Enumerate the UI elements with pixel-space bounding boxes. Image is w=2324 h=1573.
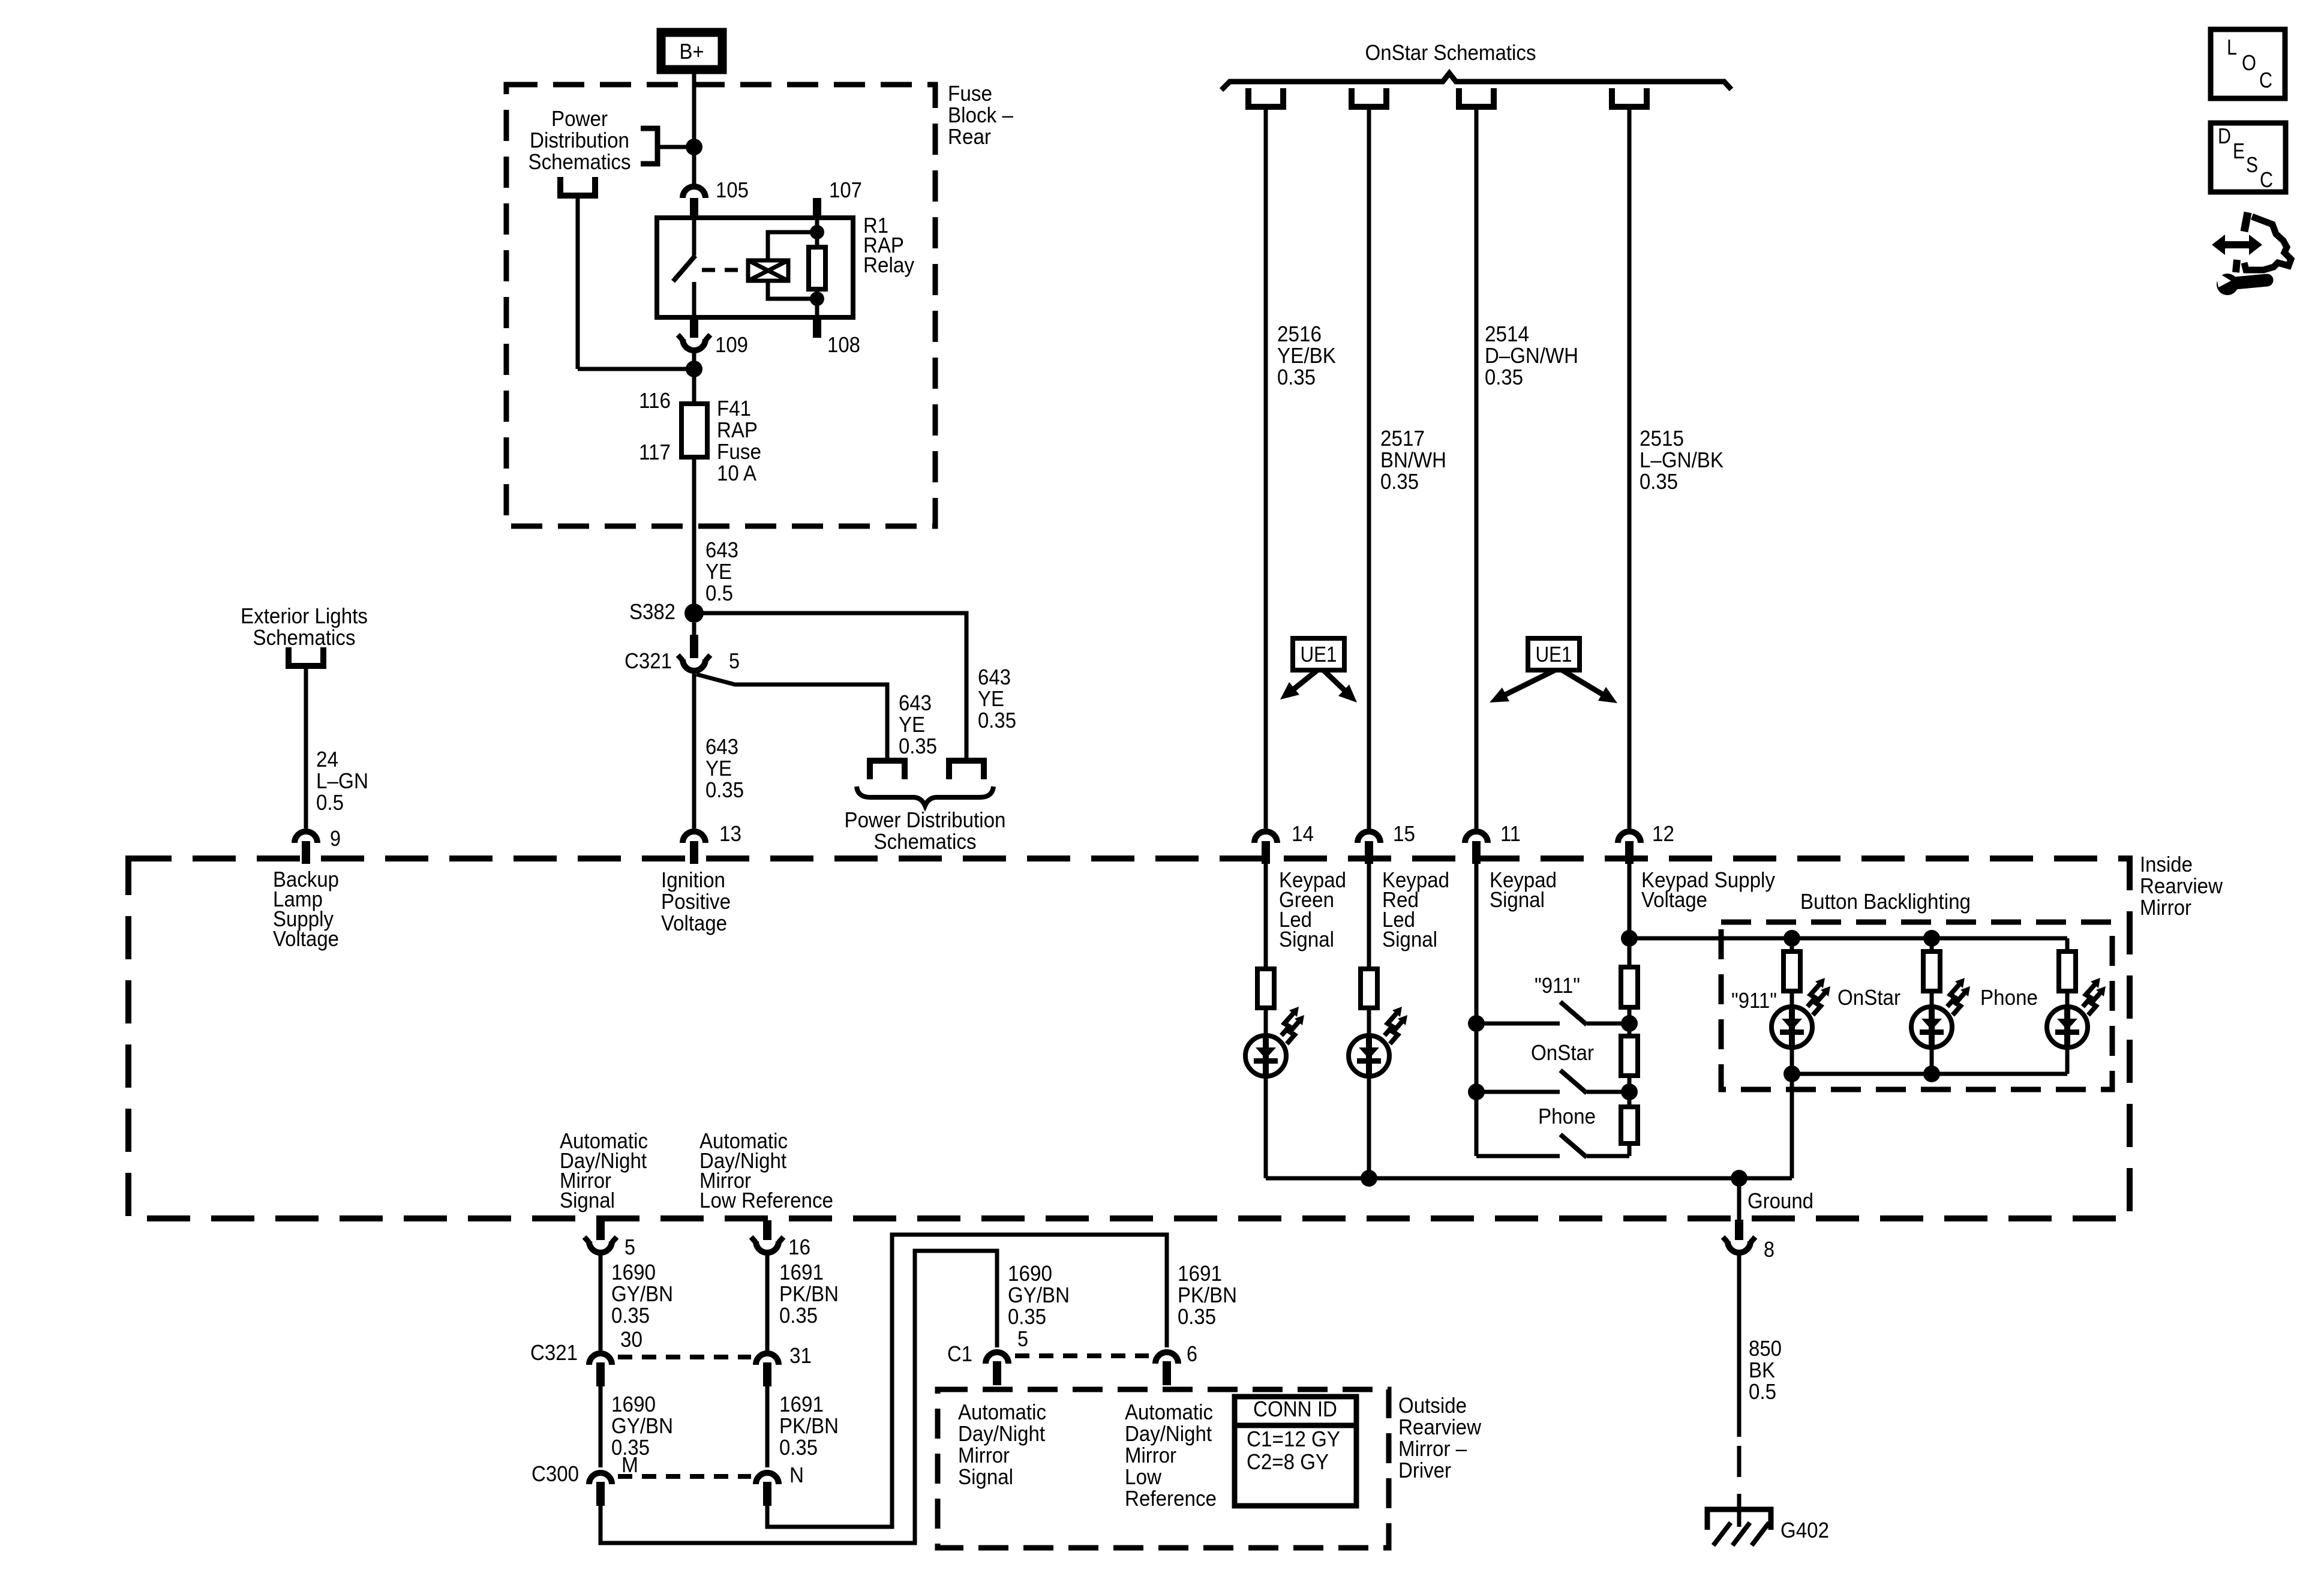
svg-text:Schematics: Schematics: [253, 625, 356, 650]
reference symbol exterior lights schematics: [289, 647, 323, 666]
svg-text:117: 117: [639, 440, 671, 464]
wire backlight bus to keypad ground bus: [1790, 1074, 1794, 1178]
svg-text:5: 5: [729, 649, 740, 673]
wire red LED to ground bus: [1367, 1076, 1371, 1178]
relay pin 108: [813, 317, 821, 338]
relay switch contact from pin 105: [692, 218, 696, 256]
OnStar wire 3 top reference terminal: [1459, 88, 1494, 107]
svg-text:116: 116: [639, 388, 671, 413]
wire exterior lights to connector 9 (24 L-GN 0.5): [304, 666, 308, 828]
wire 2514 D-GN/WH 0.35 vertical: [1475, 107, 1479, 828]
svg-text:M: M: [621, 1452, 638, 1477]
C300 terminal M: [589, 1473, 612, 1484]
svg-text:11: 11: [1500, 821, 1521, 846]
svg-text:643: 643: [899, 691, 932, 715]
keypad green LED resistor: [1257, 969, 1274, 1008]
keypad red LED resistor: [1361, 969, 1377, 1008]
reference bracket to Power Distribution Schematics: [641, 128, 657, 164]
keypad red LED branch wire: [1367, 864, 1371, 969]
svg-text:Signal: Signal: [1382, 927, 1437, 951]
svg-text:L–GN/BK: L–GN/BK: [1640, 448, 1724, 472]
svg-text:Relay: Relay: [863, 253, 914, 277]
fuse block rear dashed outline: [506, 85, 935, 526]
wire 1690 GY/BN upper segment: [599, 1253, 603, 1350]
backlight 911 branch junction: [1783, 930, 1800, 947]
svg-text:12: 12: [1652, 821, 1674, 846]
switch 911 fixed side: [1476, 1022, 1560, 1026]
svg-text:24: 24: [316, 747, 338, 772]
battery positive B+ terminal: [661, 32, 722, 70]
C321 terminal 30: [589, 1353, 612, 1365]
ground wire 850 BK 0.5: [1737, 1253, 1742, 1437]
svg-text:0.35: 0.35: [1008, 1304, 1046, 1329]
big box bottom: connector 16 automatic mirror low reference: [763, 1220, 771, 1240]
svg-text:108: 108: [827, 332, 860, 357]
svg-text:Automatic: Automatic: [958, 1400, 1046, 1424]
backlight OnStar LED: [1911, 1007, 1952, 1047]
svg-text:14: 14: [1292, 821, 1314, 846]
svg-text:Voltage: Voltage: [1641, 887, 1707, 912]
svg-text:107: 107: [829, 178, 862, 202]
junction keypad signal / 911: [1468, 1015, 1485, 1032]
svg-text:0.5: 0.5: [1749, 1379, 1776, 1404]
svg-text:Exterior Lights: Exterior Lights: [241, 604, 368, 628]
junction coil/resistor top: [810, 225, 824, 239]
big box bottom: connector 5 automatic mirror signal: [596, 1220, 605, 1240]
switch 911 to supply junction: [1587, 1022, 1629, 1026]
LOC legend box: [2211, 29, 2285, 98]
svg-text:L–GN: L–GN: [316, 769, 368, 793]
svg-text:6: 6: [1187, 1341, 1197, 1366]
svg-text:L: L: [2227, 35, 2237, 59]
svg-text:OnStar: OnStar: [1531, 1040, 1594, 1065]
svg-text:0.35: 0.35: [1485, 365, 1523, 389]
relay actuator dashed link: [702, 268, 746, 272]
svg-text:OnStar: OnStar: [1837, 985, 1900, 1010]
svg-text:0.35: 0.35: [779, 1435, 818, 1460]
svg-text:0.5: 0.5: [705, 581, 733, 605]
relay coil symbol (box with X): [748, 260, 788, 281]
svg-text:5: 5: [624, 1235, 635, 1259]
keypad signal wire: [1475, 864, 1479, 1156]
keypad green LED branch wire: [1264, 864, 1268, 969]
keypad supply resistor 3: [1621, 1107, 1638, 1143]
wire backlight OnStar LED to bus: [1930, 1047, 1934, 1074]
svg-text:UE1: UE1: [1536, 642, 1572, 667]
svg-text:Mirror: Mirror: [1125, 1443, 1176, 1467]
svg-text:Distribution: Distribution: [530, 128, 629, 152]
C321 dashed connector link: [618, 1355, 751, 1359]
outside rearview mirror driver dashed outline: [938, 1389, 1389, 1548]
svg-text:Signal: Signal: [1279, 927, 1334, 951]
switch OnStar fixed side: [1476, 1090, 1560, 1094]
svg-text:OnStar Schematics: OnStar Schematics: [1365, 40, 1536, 65]
backlight 911 resistor: [1790, 938, 1794, 951]
keypad red LED: [1349, 1035, 1389, 1076]
svg-text:9: 9: [330, 826, 341, 851]
wire B+ into fuse block: [692, 70, 696, 184]
light arrows green LED: [1281, 1013, 1293, 1035]
svg-text:30: 30: [620, 1327, 642, 1352]
wire power distribution branch horizontal: [578, 367, 694, 371]
svg-text:10 A: 10 A: [717, 461, 756, 485]
svg-text:0.35: 0.35: [779, 1303, 818, 1328]
backlight 911 LED: [1771, 1007, 1812, 1047]
C300 dashed connector link: [618, 1474, 751, 1479]
navigation icon panel outline: [2244, 212, 2248, 232]
wire C321 pin5 branch to power distribution reference: [696, 674, 887, 761]
svg-text:C: C: [2260, 167, 2273, 192]
svg-text:PK/BN: PK/BN: [1178, 1283, 1237, 1307]
UE1 arrow to wire 2515: [1562, 670, 1607, 697]
svg-text:2517: 2517: [1380, 426, 1425, 451]
CONN ID table: [1235, 1397, 1356, 1506]
svg-text:0.35: 0.35: [1277, 365, 1316, 389]
svg-text:Phone: Phone: [1980, 985, 2038, 1010]
relay coil top lead: [768, 232, 817, 260]
svg-text:GY/BN: GY/BN: [611, 1413, 673, 1438]
connector terminal 11 inside rearview mirror: [1465, 831, 1488, 843]
backlight OnStar resistor: [1930, 938, 1934, 951]
svg-text:2514: 2514: [1485, 322, 1529, 346]
light arrows backlight 911: [1807, 984, 1819, 1007]
svg-text:Day/Night: Day/Night: [1125, 1421, 1212, 1446]
svg-text:GY/BN: GY/BN: [611, 1281, 673, 1306]
svg-text:Phone: Phone: [1538, 1104, 1596, 1128]
svg-text:D: D: [2218, 124, 2231, 148]
svg-text:C321: C321: [530, 1340, 578, 1365]
relay R1 box outline: [657, 218, 853, 317]
svg-text:5: 5: [1017, 1326, 1028, 1351]
wire green LED to ground bus: [1264, 1076, 1268, 1178]
svg-text:O: O: [2242, 50, 2256, 75]
keypad supply resistor 1: [1621, 967, 1638, 1007]
wire 1691 PK/BN lower segment: [765, 1386, 770, 1467]
svg-text:C321: C321: [624, 649, 672, 673]
switch Phone blade: [1560, 1134, 1587, 1157]
svg-text:S: S: [2246, 152, 2258, 177]
wire 2517 BN/WH 0.35 vertical: [1367, 107, 1371, 828]
UE1 arrow to wire 2514: [1500, 670, 1555, 697]
svg-text:Low: Low: [1125, 1464, 1162, 1489]
relay coil bottom lead: [768, 281, 817, 299]
keypad LED ground bus: [1266, 1176, 1792, 1181]
connector terminal 109: [690, 317, 698, 338]
svg-text:Power Distribution: Power Distribution: [845, 807, 1006, 832]
svg-text:RAP: RAP: [717, 418, 758, 442]
C1 dashed connector link: [1015, 1353, 1149, 1358]
connector terminal 105 of RAP relay: [683, 187, 705, 198]
svg-text:13: 13: [719, 821, 741, 846]
svg-text:Voltage: Voltage: [273, 926, 339, 951]
svg-text:YE/BK: YE/BK: [1277, 343, 1336, 368]
svg-text:D–GN/WH: D–GN/WH: [1485, 343, 1578, 368]
svg-text:E: E: [2233, 139, 2245, 163]
svg-text:Schematics: Schematics: [529, 149, 631, 174]
switch OnStar to supply junction: [1587, 1090, 1629, 1094]
ground G402 symbol: [1707, 1509, 1771, 1530]
svg-text:Reference: Reference: [1125, 1486, 1217, 1511]
switch 911 blade: [1560, 1002, 1587, 1025]
wire 2515 L-GN/BK 0.35 vertical: [1628, 107, 1632, 828]
svg-text:YE: YE: [899, 712, 925, 737]
light arrows backlight OnStar: [1947, 984, 1959, 1007]
wire from power distribution reference down: [576, 196, 580, 369]
junction backlight bus OnStar: [1923, 1065, 1940, 1082]
svg-text:YE: YE: [705, 756, 732, 781]
wire backlight Phone LED to bus: [2065, 1047, 2070, 1074]
wire C321-5 to connector 13 (643 YE 0.35): [692, 671, 696, 828]
wire fuse to splice S382 (circuit 643 YE 0.5): [692, 457, 696, 613]
svg-text:Signal: Signal: [1490, 887, 1545, 912]
connector terminal 8 inside rearview mirror: [1735, 1220, 1743, 1240]
C321 terminal 31: [756, 1353, 779, 1365]
svg-text:0.35: 0.35: [1178, 1304, 1216, 1329]
svg-text:Fuse: Fuse: [948, 81, 992, 106]
svg-text:Fuse: Fuse: [717, 439, 761, 464]
light arrows backlight Phone: [2083, 984, 2095, 1007]
junction with power distribution branch: [686, 361, 702, 377]
svg-text:N: N: [789, 1463, 804, 1487]
svg-text:Positive: Positive: [661, 889, 731, 914]
backlight OnStar branch junction: [1923, 930, 1940, 947]
backlight ground bus: [1792, 1072, 2067, 1076]
backlight Phone branch: [2065, 938, 2070, 951]
wire S382 branch right (643 YE 0.35): [694, 613, 966, 761]
svg-text:Mirror: Mirror: [958, 1443, 1010, 1467]
junction ground bus red LED: [1361, 1170, 1377, 1187]
wire backlight 911 LED to bus: [1790, 1047, 1794, 1074]
brace power distribution schematics: [857, 786, 993, 806]
svg-text:Block –: Block –: [948, 103, 1013, 127]
svg-text:C300: C300: [532, 1461, 579, 1486]
svg-text:Low Reference: Low Reference: [699, 1188, 833, 1212]
svg-text:S382: S382: [629, 599, 675, 624]
brace over OnStar schematic wires: [1221, 73, 1731, 90]
svg-text:C2=8 GY: C2=8 GY: [1247, 1449, 1329, 1474]
svg-text:0.35: 0.35: [705, 778, 744, 802]
svg-text:YE: YE: [705, 559, 732, 584]
svg-text:B+: B+: [680, 39, 704, 64]
svg-text:0.35: 0.35: [899, 734, 937, 758]
fuse F41 RAP Fuse 10A: [681, 404, 707, 457]
svg-text:16: 16: [788, 1235, 810, 1259]
connector terminal 9 inside rearview mirror: [295, 831, 317, 843]
svg-text:643: 643: [978, 665, 1011, 689]
svg-text:Ground: Ground: [1747, 1188, 1813, 1213]
junction keypad signal / OnStar: [1468, 1083, 1485, 1100]
splice S382: [684, 604, 704, 623]
junction ground bus to ground pin: [1731, 1170, 1747, 1187]
svg-text:GY/BN: GY/BN: [1008, 1283, 1070, 1307]
svg-text:Mirror: Mirror: [2140, 895, 2191, 920]
ground wire dashed continuation: [1737, 1446, 1742, 1512]
button backlighting feed wire: [1629, 936, 2067, 941]
switch OnStar blade: [1560, 1070, 1587, 1093]
relay internal resistor: [809, 247, 825, 289]
inside rearview mirror dashed outline: [128, 858, 2130, 1218]
wire 1691 PK/BN upper segment: [765, 1253, 770, 1350]
svg-text:0.35: 0.35: [1640, 469, 1678, 494]
svg-text:8: 8: [1764, 1237, 1774, 1262]
svg-text:850: 850: [1749, 1336, 1782, 1361]
UE1 arrow to wire 2516: [1290, 670, 1317, 692]
svg-text:Driver: Driver: [1398, 1458, 1451, 1482]
harness connector UE1 (right pair): [1528, 638, 1580, 670]
wire ground junction to connector 8: [1737, 1178, 1742, 1220]
junction keypad supply to button backlighting: [1621, 930, 1638, 947]
reference bracket power distribution right: [949, 761, 984, 779]
svg-text:"911": "911": [1535, 973, 1580, 998]
relay switch lower contact wire to pin 109: [692, 282, 696, 317]
wire M to C1 pin 5 route: [600, 1251, 997, 1543]
OnStar wire 2 top reference terminal: [1352, 88, 1386, 107]
svg-text:UE1: UE1: [1301, 642, 1337, 667]
svg-text:Day/Night: Day/Night: [958, 1421, 1045, 1446]
svg-text:0.35: 0.35: [1380, 469, 1419, 494]
svg-text:109: 109: [715, 332, 748, 357]
keypad supply resistor 2: [1621, 1036, 1638, 1076]
OnStar wire 4 top reference terminal: [1612, 88, 1647, 107]
svg-text:C1: C1: [947, 1341, 972, 1366]
keypad supply voltage wire: [1628, 864, 1632, 967]
C300 terminal N: [756, 1473, 779, 1484]
harness connector UE1 (left pair): [1293, 638, 1344, 670]
wire relay 109 to fuse F41: [692, 350, 696, 404]
svg-text:2515: 2515: [1640, 426, 1684, 451]
svg-text:BK: BK: [1749, 1358, 1775, 1382]
junction supply / OnStar: [1621, 1083, 1638, 1100]
reference bracket power distribution left: [870, 761, 905, 779]
svg-text:Rearview: Rearview: [2140, 873, 2223, 898]
wire 1690 GY/BN lower segment: [599, 1386, 603, 1467]
svg-text:Mirror –: Mirror –: [1398, 1436, 1467, 1461]
connector terminal 13 inside rearview mirror: [683, 831, 705, 843]
switch Phone to supply wire: [1587, 1154, 1629, 1158]
relay switch blade: [673, 256, 695, 281]
svg-text:Outside: Outside: [1398, 1393, 1467, 1418]
svg-text:15: 15: [1393, 821, 1415, 846]
C1 terminal 6: [1155, 1352, 1178, 1364]
button backlighting dashed outline: [1721, 922, 2112, 1089]
svg-text:BN/WH: BN/WH: [1380, 448, 1446, 472]
navigation icon double arrow: [2212, 235, 2262, 255]
junction coil/resistor bottom: [810, 292, 824, 306]
svg-text:0.35: 0.35: [611, 1303, 650, 1328]
junction backlight bus 911 / ground drop: [1783, 1065, 1800, 1082]
svg-text:G402: G402: [1780, 1518, 1829, 1542]
svg-text:105: 105: [716, 178, 749, 202]
relay pin 107: [813, 198, 821, 218]
junction supply / 911: [1621, 1015, 1638, 1032]
svg-text:0.5: 0.5: [316, 790, 344, 815]
C1 terminal 5: [986, 1352, 1008, 1364]
svg-text:31: 31: [789, 1343, 812, 1368]
svg-text:Power: Power: [551, 106, 608, 131]
connector terminal 14 inside rearview mirror: [1254, 831, 1277, 843]
reference symbol below Power Distribution Schematics label: [560, 177, 595, 196]
svg-text:C: C: [2259, 68, 2272, 92]
DESC legend box: [2211, 123, 2286, 192]
wire 2516 YE/BK 0.35 vertical: [1264, 107, 1268, 828]
svg-text:Voltage: Voltage: [661, 911, 727, 935]
OnStar wire 1 top reference terminal: [1248, 88, 1283, 107]
switch Phone fixed side: [1476, 1154, 1560, 1158]
svg-text:Inside: Inside: [2140, 852, 2193, 876]
svg-text:Signal: Signal: [958, 1464, 1013, 1489]
junction on B+ feed: [686, 139, 702, 155]
svg-text:1691: 1691: [779, 1260, 824, 1284]
svg-text:F41: F41: [717, 396, 751, 421]
svg-text:2516: 2516: [1277, 322, 1322, 346]
svg-text:Schematics: Schematics: [874, 829, 977, 854]
keypad green LED: [1245, 1035, 1286, 1076]
svg-text:"911": "911": [1731, 988, 1777, 1013]
svg-text:Button Backlighting: Button Backlighting: [1800, 889, 1971, 914]
svg-text:PK/BN: PK/BN: [779, 1281, 839, 1306]
svg-text:PK/BN: PK/BN: [779, 1413, 839, 1438]
UE1 arrow to wire 2517: [1323, 670, 1349, 694]
backlight Phone LED: [2047, 1007, 2088, 1047]
svg-text:643: 643: [705, 734, 738, 759]
svg-text:0.35: 0.35: [978, 708, 1016, 733]
svg-text:1691: 1691: [1178, 1261, 1222, 1286]
svg-text:1690: 1690: [1008, 1261, 1052, 1286]
svg-text:1690: 1690: [611, 1392, 656, 1416]
svg-text:1690: 1690: [611, 1260, 656, 1284]
svg-text:Rearview: Rearview: [1398, 1415, 1482, 1439]
svg-text:Automatic: Automatic: [1125, 1400, 1213, 1424]
connector terminal 12 inside rearview mirror: [1618, 831, 1641, 843]
svg-text:1691: 1691: [779, 1392, 824, 1416]
svg-text:C1=12 GY: C1=12 GY: [1247, 1427, 1340, 1451]
svg-text:Ignition: Ignition: [661, 867, 725, 892]
connector terminal 15 inside rearview mirror: [1358, 831, 1380, 843]
svg-text:643: 643: [705, 538, 738, 562]
light arrows red LED: [1385, 1013, 1397, 1035]
wire N to C1 pin 6 route: [767, 1235, 1167, 1527]
svg-text:Signal: Signal: [560, 1188, 615, 1212]
svg-text:CONN ID: CONN ID: [1253, 1397, 1337, 1421]
connector C321 terminal 5: [692, 623, 696, 635]
navigation icon wrench: [2217, 274, 2238, 295]
svg-text:YE: YE: [978, 686, 1004, 711]
svg-text:Rear: Rear: [948, 124, 991, 149]
